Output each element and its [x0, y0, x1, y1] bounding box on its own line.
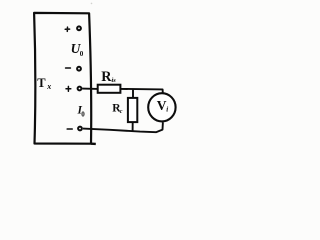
- terminal U0-: [77, 67, 81, 71]
- transducer box Tx: [34, 13, 96, 144]
- wire I0+ to Ris: [82, 88, 98, 90]
- plus sign I0+: [66, 86, 71, 91]
- resistor Rc body: [128, 98, 137, 122]
- svg-text:T: T: [37, 76, 46, 90]
- svg-text:i: i: [166, 106, 168, 114]
- minus sign U0-: [66, 67, 71, 69]
- terminal I0+: [78, 87, 82, 91]
- minus sign I0-: [67, 128, 72, 130]
- svg-text:0: 0: [81, 110, 85, 118]
- voltmeter Vi: [148, 93, 175, 121]
- svg-text:c: c: [120, 109, 123, 115]
- wire Ris to voltmeter top: [120, 89, 162, 95]
- wire bottom return I0- to voltmeter: [83, 122, 163, 132]
- noise speck: [91, 3, 93, 5]
- wire Rc top lead: [132, 89, 134, 98]
- plus sign U0+: [65, 27, 69, 31]
- terminal U0+: [77, 26, 81, 30]
- svg-text:0: 0: [80, 50, 84, 58]
- resistor Ris body: [98, 85, 121, 93]
- svg-text:x: x: [46, 82, 51, 91]
- wire Rc bottom lead: [132, 122, 134, 131]
- terminal I0-: [78, 127, 82, 131]
- svg-text:is: is: [112, 77, 117, 84]
